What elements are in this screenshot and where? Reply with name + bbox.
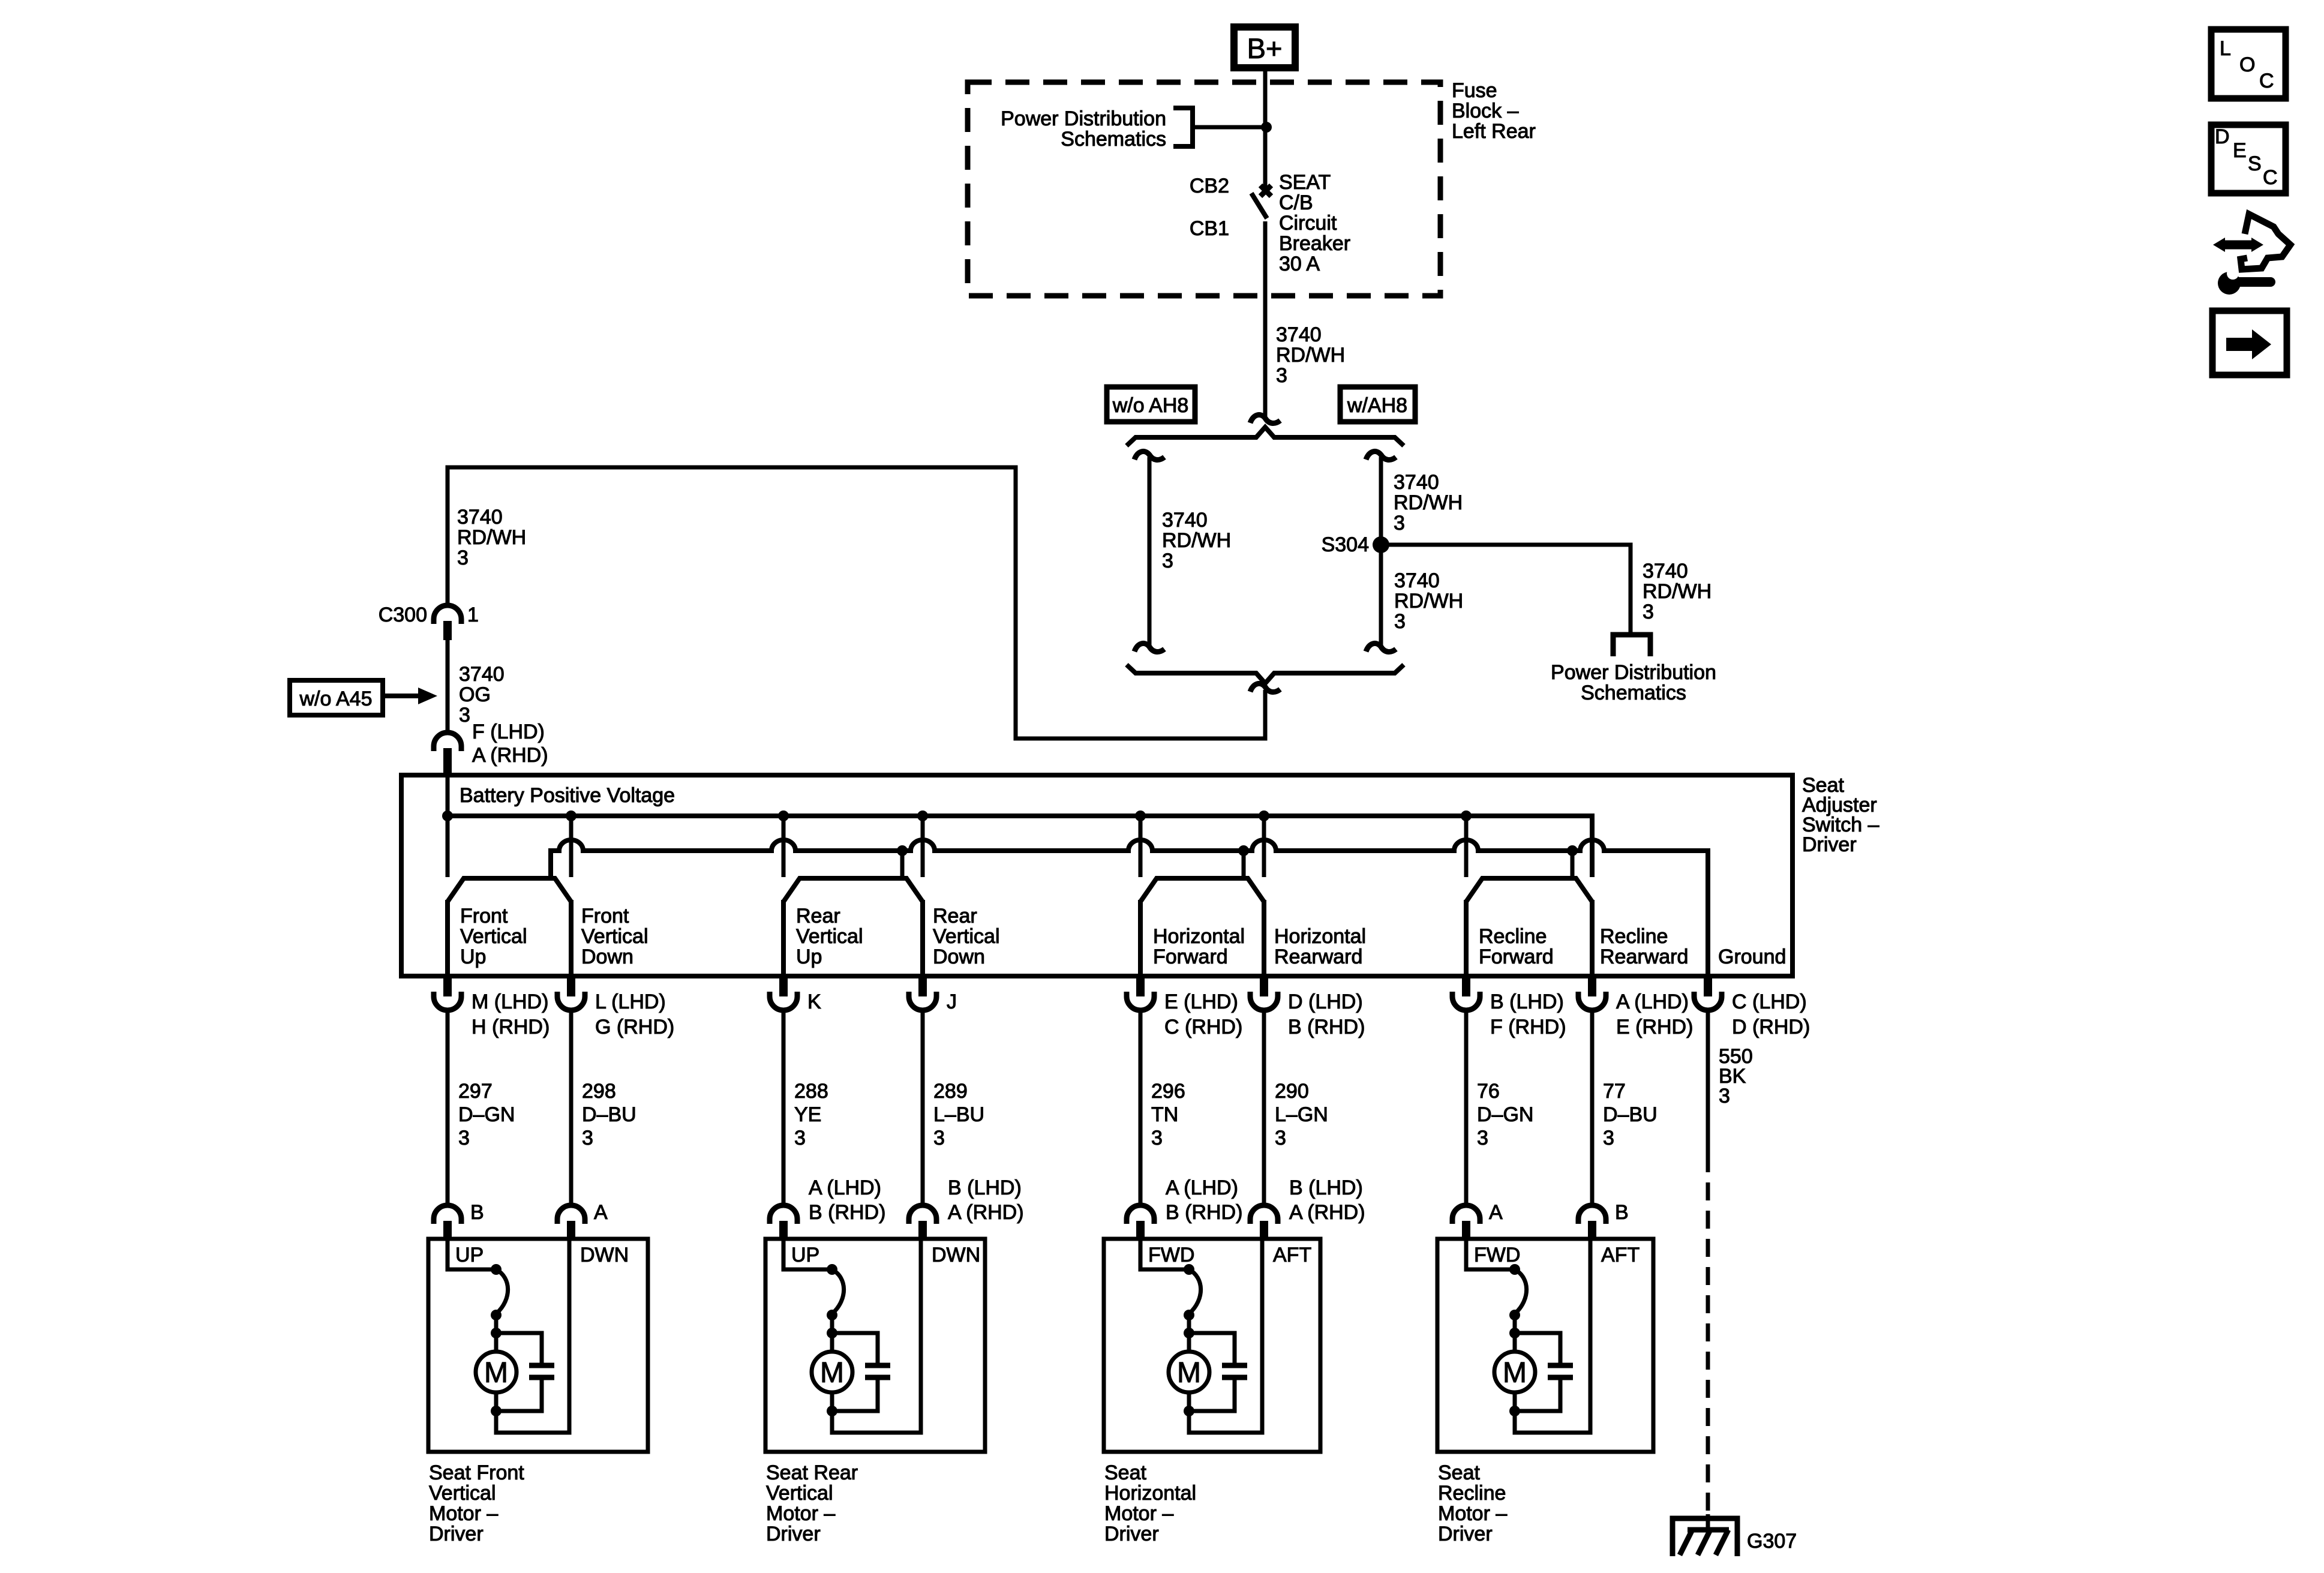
svg-text:3740: 3740 bbox=[1276, 323, 1322, 346]
svg-text:AFT: AFT bbox=[1273, 1244, 1311, 1266]
wire B+ rail drop to Horizontal Rearward contact bbox=[1262, 816, 1266, 877]
off-page connector to power distribution schematics bbox=[1613, 635, 1650, 656]
connector C300 pin 1 bbox=[434, 605, 461, 640]
svg-text:A (RHD): A (RHD) bbox=[472, 744, 548, 767]
connector pin D (switch side) at x=2107 bbox=[1250, 976, 1278, 1010]
connector pin A (switch side) at x=2654 bbox=[1578, 976, 1606, 1010]
svg-text:DWN: DWN bbox=[932, 1244, 980, 1266]
svg-text:Motor –: Motor – bbox=[1104, 1502, 1173, 1525]
connector pin B (motor side) at x=746 bbox=[434, 1205, 461, 1240]
motor internal switch contact (curved) bbox=[1189, 1269, 1201, 1313]
wire motor to bottom junction bbox=[1187, 1392, 1191, 1413]
svg-text:77: 77 bbox=[1603, 1080, 1626, 1103]
wire splice to breaker contact bbox=[1263, 127, 1268, 188]
svg-text:w/o AH8: w/o AH8 bbox=[1112, 394, 1189, 417]
motor internal switch contact (curved) bbox=[496, 1269, 508, 1313]
junction dot (contact bottom) bbox=[1509, 1310, 1520, 1320]
wire circuit 296 TN 3 bbox=[1139, 1010, 1143, 1205]
svg-text:30 A: 30 A bbox=[1279, 253, 1320, 275]
svg-text:RD/WH: RD/WH bbox=[1394, 491, 1463, 514]
svg-text:G (RHD): G (RHD) bbox=[595, 1016, 674, 1038]
label circuit 3740 RD/WH 3 (left run) bbox=[457, 506, 526, 569]
label Front Vertical Down bbox=[581, 905, 648, 968]
svg-text:TN: TN bbox=[1151, 1103, 1178, 1126]
svg-text:3: 3 bbox=[1643, 601, 1654, 623]
svg-text:Front: Front bbox=[581, 905, 629, 927]
capacitor (motor suppression) bbox=[832, 1333, 890, 1411]
svg-text:Seat Front: Seat Front bbox=[429, 1461, 524, 1484]
svg-text:w/o A45: w/o A45 bbox=[299, 688, 373, 710]
connector pin J (switch side) at x=1538 bbox=[909, 976, 936, 1010]
motor M (Seat Front Vertical Motor - Driver) bbox=[476, 1352, 517, 1392]
svg-text:Fuse: Fuse bbox=[1452, 79, 1497, 102]
svg-text:AFT: AFT bbox=[1601, 1244, 1640, 1266]
svg-text:RD/WH: RD/WH bbox=[457, 526, 526, 549]
junction dot (capacitor tap top) bbox=[827, 1328, 837, 1338]
wire FWD feed into switch contact bbox=[1140, 1239, 1189, 1269]
svg-text:L–GN: L–GN bbox=[1275, 1103, 1328, 1126]
label pin F (LHD) bbox=[472, 721, 545, 743]
connector pin A (motor side) at x=2444 bbox=[1452, 1205, 1480, 1240]
label SEAT C/B Circuit Breaker 30 A bbox=[1279, 171, 1350, 275]
svg-text:3: 3 bbox=[1719, 1085, 1730, 1107]
svg-text:L (LHD): L (LHD) bbox=[595, 990, 666, 1013]
svg-text:D (RHD): D (RHD) bbox=[1732, 1016, 1810, 1038]
svg-text:A: A bbox=[594, 1201, 608, 1224]
icon adjust/repair (arrow, panel, wrench) bbox=[2213, 214, 2290, 295]
wire circuit 289 L–BU 3 bbox=[921, 1010, 925, 1205]
w/o AH8 branch wire 3740 RD/WH bbox=[1134, 451, 1164, 652]
wire B+ rail drop to Rear Vertical Down contact bbox=[921, 816, 925, 877]
label Seat Front Vertical Motor - Driver bbox=[429, 1461, 524, 1545]
svg-text:Driver: Driver bbox=[1802, 833, 1857, 856]
svg-text:C: C bbox=[2259, 70, 2274, 92]
connector pin B (motor side) at x=2654 bbox=[1578, 1205, 1606, 1240]
label pin 1 bbox=[467, 604, 479, 626]
svg-text:290: 290 bbox=[1275, 1080, 1309, 1103]
label DWN bbox=[932, 1244, 980, 1266]
wire motor to bottom junction bbox=[494, 1392, 499, 1413]
capacitor (motor suppression) bbox=[1515, 1333, 1573, 1411]
wire return to DWN terminal bbox=[832, 1239, 921, 1433]
svg-text:A (LHD): A (LHD) bbox=[1616, 990, 1689, 1013]
svg-text:Driver: Driver bbox=[1438, 1523, 1493, 1545]
icon forward arrow page tab bbox=[2212, 311, 2287, 375]
connector pin K (switch side) at x=1306 bbox=[770, 976, 797, 1010]
wire circuit 298 D–BU 3 bbox=[569, 1010, 574, 1205]
svg-text:B (LHD): B (LHD) bbox=[1490, 990, 1564, 1013]
wire motor to bottom junction bbox=[1513, 1392, 1517, 1413]
motor M (Seat Rear Vertical Motor - Driver) bbox=[812, 1352, 852, 1392]
connector pin A (motor side) at x=952 bbox=[557, 1205, 585, 1240]
svg-text:FWD: FWD bbox=[1148, 1244, 1194, 1266]
svg-text:3740: 3740 bbox=[459, 663, 505, 686]
svg-text:1: 1 bbox=[467, 604, 479, 626]
svg-text:B (RHD): B (RHD) bbox=[1288, 1016, 1365, 1038]
svg-text:A (RHD): A (RHD) bbox=[1289, 1201, 1365, 1224]
switch contact Front Vertical bbox=[448, 878, 571, 976]
svg-text:Seat: Seat bbox=[1104, 1461, 1146, 1484]
svg-text:Recline: Recline bbox=[1438, 1482, 1506, 1505]
svg-text:O: O bbox=[2239, 53, 2255, 76]
svg-text:M: M bbox=[484, 1357, 508, 1389]
svg-text:Rearward: Rearward bbox=[1274, 945, 1362, 968]
w/AH8 branch wire 3740 RD/WH bbox=[1366, 451, 1396, 652]
svg-text:C/B: C/B bbox=[1279, 191, 1313, 214]
capacitor (motor suppression) bbox=[496, 1333, 554, 1411]
svg-text:M: M bbox=[1503, 1357, 1527, 1389]
svg-text:D–GN: D–GN bbox=[458, 1103, 515, 1126]
motor assembly Seat Rear Vertical Motor - Driver (box) bbox=[765, 1239, 985, 1452]
svg-text:F (LHD): F (LHD) bbox=[472, 721, 545, 743]
label circuit 3740 OG 3 bbox=[459, 663, 505, 727]
label Seat Horizontal Motor - Driver bbox=[1104, 1461, 1196, 1545]
wire bracket to splice bbox=[1193, 125, 1265, 130]
svg-text:FWD: FWD bbox=[1474, 1244, 1520, 1266]
connector pin A (motor side) at x=1306 bbox=[770, 1205, 797, 1240]
svg-text:CB1: CB1 bbox=[1190, 217, 1229, 240]
svg-text:DWN: DWN bbox=[580, 1244, 629, 1266]
junction dot (capacitor tap top) bbox=[1184, 1328, 1194, 1338]
svg-text:288: 288 bbox=[794, 1080, 828, 1103]
junction dots on common rail bbox=[897, 845, 1578, 856]
svg-text:Battery Positive Voltage: Battery Positive Voltage bbox=[460, 784, 675, 807]
label circuit 3740 RD/WH 3 (above S304) bbox=[1394, 471, 1463, 535]
wire return to AFT terminal bbox=[1515, 1239, 1590, 1433]
connector seat adjuster switch feed pin bbox=[434, 733, 461, 775]
svg-text:C (LHD): C (LHD) bbox=[1732, 990, 1807, 1013]
svg-text:Driver: Driver bbox=[429, 1523, 484, 1545]
wire circuit 288 YE 3 bbox=[782, 1010, 786, 1205]
motor internal switch contact (curved) bbox=[832, 1269, 844, 1313]
svg-text:D–BU: D–BU bbox=[582, 1103, 636, 1126]
label Power Distribution Schematics (bottom) bbox=[1551, 661, 1716, 704]
svg-text:Motor –: Motor – bbox=[766, 1502, 835, 1525]
label pin C (LHD) bbox=[1732, 990, 1810, 1038]
label Rear Vertical Down bbox=[933, 905, 1000, 968]
label motor pin A bbox=[594, 1201, 608, 1224]
svg-text:E (LHD): E (LHD) bbox=[1164, 990, 1238, 1013]
svg-text:A (LHD): A (LHD) bbox=[1166, 1176, 1238, 1199]
label circuit 296 TN 3 bbox=[1151, 1080, 1185, 1149]
wire return to AFT terminal bbox=[1189, 1239, 1262, 1433]
svg-text:Rearward: Rearward bbox=[1600, 945, 1688, 968]
wire circuit 550 BK 3 (ground, dashed run) bbox=[1706, 1154, 1710, 1514]
svg-text:Seat Rear: Seat Rear bbox=[766, 1461, 858, 1484]
connector pin E (switch side) at x=1901 bbox=[1127, 976, 1154, 1010]
wire UP feed into switch contact bbox=[448, 1239, 496, 1269]
wire UP feed into switch contact bbox=[783, 1239, 832, 1269]
svg-text:Vertical: Vertical bbox=[581, 925, 648, 948]
option tag w/o AH8 bbox=[1107, 387, 1195, 422]
svg-text:G307: G307 bbox=[1747, 1530, 1797, 1553]
label AFT bbox=[1273, 1244, 1311, 1266]
svg-text:Rear: Rear bbox=[796, 905, 840, 927]
svg-text:Motor –: Motor – bbox=[1438, 1502, 1507, 1525]
svg-text:RD/WH: RD/WH bbox=[1162, 529, 1231, 552]
wire circuit 290 L–GN 3 bbox=[1262, 1010, 1266, 1205]
label Horizontal Forward bbox=[1153, 925, 1245, 968]
label circuit 290 L–GN 3 bbox=[1275, 1080, 1328, 1149]
svg-text:RD/WH: RD/WH bbox=[1394, 590, 1463, 613]
svg-text:3: 3 bbox=[1162, 550, 1173, 572]
label Recline Forward bbox=[1479, 925, 1554, 968]
svg-text:Circuit: Circuit bbox=[1279, 212, 1337, 235]
svg-text:3740: 3740 bbox=[1162, 509, 1208, 532]
svg-text:Ground: Ground bbox=[1718, 945, 1786, 968]
label UP bbox=[791, 1244, 819, 1266]
svg-text:298: 298 bbox=[582, 1080, 616, 1103]
label Recline Rearward bbox=[1600, 925, 1688, 968]
junction splice dot bbox=[1261, 122, 1272, 133]
junction dot (contact bottom) bbox=[491, 1310, 502, 1320]
svg-text:CB2: CB2 bbox=[1190, 175, 1229, 197]
connector pin B (motor side) at x=1538 bbox=[909, 1205, 936, 1240]
label pin A (LHD) bbox=[1616, 990, 1693, 1038]
svg-text:Down: Down bbox=[581, 945, 633, 968]
svg-text:3: 3 bbox=[459, 704, 470, 727]
switch contact Horizontal bbox=[1140, 878, 1264, 976]
label circuit 298 D–BU 3 bbox=[582, 1080, 636, 1149]
svg-text:Down: Down bbox=[933, 945, 985, 968]
svg-text:B (LHD): B (LHD) bbox=[1289, 1176, 1363, 1199]
label pin J bbox=[947, 990, 957, 1013]
wire B+ rail drop to Front Vertical Up contact bbox=[446, 816, 450, 877]
wire B+ rail drop to Horizontal Forward contact bbox=[1139, 816, 1143, 877]
svg-text:L–BU: L–BU bbox=[933, 1103, 984, 1126]
svg-text:Block –: Block – bbox=[1452, 100, 1519, 122]
connector pin M (switch side) at x=746 bbox=[434, 976, 461, 1010]
svg-text:A: A bbox=[1489, 1201, 1503, 1224]
junction dot (capacitor tap bottom) bbox=[827, 1406, 837, 1416]
svg-text:3: 3 bbox=[582, 1127, 593, 1149]
label circuit 3740 RD/WH 3 (w/o AH8 branch) bbox=[1162, 509, 1231, 572]
svg-text:Recline: Recline bbox=[1600, 925, 1668, 948]
label Fuse Block - Left Rear bbox=[1452, 79, 1536, 143]
junction dot (capacitor tap bottom) bbox=[491, 1406, 502, 1416]
junction dot (contact bottom) bbox=[827, 1310, 837, 1320]
power node B+ bbox=[1234, 27, 1295, 68]
switch contact Recline bbox=[1466, 878, 1592, 976]
svg-text:3740: 3740 bbox=[1394, 569, 1440, 592]
svg-text:Seat: Seat bbox=[1438, 1461, 1480, 1484]
svg-text:Driver: Driver bbox=[766, 1523, 821, 1545]
svg-text:w/AH8: w/AH8 bbox=[1347, 394, 1407, 417]
svg-text:3: 3 bbox=[1394, 610, 1406, 633]
motor M (Seat Recline Motor - Driver) bbox=[1494, 1352, 1535, 1392]
motor assembly Seat Horizontal Motor - Driver (box) bbox=[1104, 1239, 1320, 1452]
label Rear Vertical Up bbox=[796, 905, 863, 968]
svg-text:K: K bbox=[807, 990, 821, 1013]
switch contact Rear Vertical bbox=[783, 878, 923, 976]
svg-text:3: 3 bbox=[1477, 1127, 1488, 1149]
junction dot (contact top) bbox=[1509, 1264, 1520, 1275]
svg-text:M (LHD): M (LHD) bbox=[472, 990, 548, 1013]
svg-text:289: 289 bbox=[933, 1080, 968, 1103]
junction dot (capacitor tap top) bbox=[1509, 1328, 1520, 1338]
svg-text:UP: UP bbox=[791, 1244, 819, 1266]
svg-text:M: M bbox=[820, 1357, 844, 1389]
connector pin L (switch side) at x=952 bbox=[557, 976, 585, 1010]
wire B+ rail drop to Rear Vertical Up contact bbox=[782, 816, 786, 877]
junction dots on B+ rail bbox=[442, 810, 1472, 821]
label circuit 297 D–GN 3 bbox=[458, 1080, 515, 1149]
svg-text:Vertical: Vertical bbox=[766, 1482, 833, 1505]
svg-text:D–BU: D–BU bbox=[1603, 1103, 1658, 1126]
svg-text:Vertical: Vertical bbox=[460, 925, 527, 948]
wire FWD feed into switch contact bbox=[1466, 1239, 1515, 1269]
wire break squiggle (below brace) bbox=[1250, 683, 1280, 692]
option tag w/AH8 bbox=[1340, 387, 1415, 422]
svg-text:B: B bbox=[1615, 1201, 1629, 1224]
svg-text:J: J bbox=[947, 990, 957, 1013]
bus switch common (ground rail) with hops bbox=[551, 840, 1708, 976]
junction dot (capacitor tap bottom) bbox=[1184, 1406, 1194, 1416]
svg-text:3740: 3740 bbox=[1643, 560, 1688, 583]
icon DESC page tab bbox=[2211, 125, 2286, 193]
svg-text:D: D bbox=[2215, 125, 2230, 148]
junction dot (contact top) bbox=[827, 1264, 837, 1275]
svg-text:Horizontal: Horizontal bbox=[1104, 1482, 1196, 1505]
svg-text:Breaker: Breaker bbox=[1279, 232, 1350, 255]
connector pin C (switch side) at x=2847 bbox=[1694, 976, 1722, 1010]
svg-text:B+: B+ bbox=[1247, 32, 1283, 64]
label pin M (LHD) bbox=[472, 990, 550, 1038]
label circuit 550 BK 3 bbox=[1719, 1045, 1753, 1107]
svg-text:Motor –: Motor – bbox=[429, 1502, 498, 1525]
label CB1 bbox=[1190, 217, 1229, 240]
svg-text:76: 76 bbox=[1477, 1080, 1500, 1103]
svg-text:Driver: Driver bbox=[1104, 1523, 1159, 1545]
label motor pin B (LHD) bbox=[1289, 1176, 1365, 1224]
label Power Distribution Schematics (fuse block feed) bbox=[1001, 107, 1166, 151]
svg-text:3: 3 bbox=[933, 1127, 945, 1149]
capacitor (motor suppression) bbox=[1189, 1333, 1247, 1411]
split brace (top) bbox=[1127, 427, 1404, 446]
svg-text:297: 297 bbox=[458, 1080, 493, 1103]
svg-text:Vertical: Vertical bbox=[796, 925, 863, 948]
svg-text:3: 3 bbox=[1276, 364, 1287, 387]
svg-text:B: B bbox=[470, 1201, 484, 1224]
svg-text:Schematics: Schematics bbox=[1581, 682, 1686, 704]
svg-text:D–GN: D–GN bbox=[1477, 1103, 1533, 1126]
seat adjuster switch - driver (box) bbox=[401, 775, 1792, 976]
wire B+ rail drop to Recline Forward contact bbox=[1464, 816, 1469, 877]
label splice S304 bbox=[1322, 533, 1369, 556]
splice S304 bbox=[1373, 536, 1389, 553]
label circuit 3740 RD/WH 3 (power distribution leg) bbox=[1643, 560, 1712, 623]
label pin D (LHD) bbox=[1288, 990, 1365, 1038]
label motor pin A (LHD) bbox=[809, 1176, 885, 1224]
junction dot (capacitor tap top) bbox=[491, 1328, 502, 1338]
svg-text:B (LHD): B (LHD) bbox=[948, 1176, 1022, 1199]
label G307 bbox=[1747, 1530, 1797, 1553]
svg-text:3: 3 bbox=[1603, 1127, 1614, 1149]
svg-text:Forward: Forward bbox=[1153, 945, 1228, 968]
label Front Vertical Up bbox=[460, 905, 527, 968]
connector pin A (motor side) at x=1901 bbox=[1127, 1205, 1154, 1240]
bus battery positive voltage (B+ rail) bbox=[448, 775, 1592, 877]
svg-text:S: S bbox=[2248, 152, 2262, 175]
svg-text:A (LHD): A (LHD) bbox=[809, 1176, 881, 1199]
wire B+ rail drop to Front Vertical Down contact bbox=[569, 816, 574, 877]
motor M (Seat Horizontal Motor - Driver) bbox=[1169, 1352, 1209, 1392]
wire circuit 550 BK 3 (ground, solid) bbox=[1706, 1010, 1710, 1154]
svg-text:296: 296 bbox=[1151, 1080, 1185, 1103]
svg-text:3: 3 bbox=[1275, 1127, 1286, 1149]
label pin B (LHD) bbox=[1490, 990, 1566, 1038]
wire contact to motor bbox=[494, 1315, 499, 1352]
svg-text:Up: Up bbox=[460, 945, 486, 968]
wire S304 to power distribution bbox=[1381, 545, 1631, 635]
svg-text:Rear: Rear bbox=[933, 905, 977, 927]
option tag w/o A45 bbox=[290, 680, 383, 715]
svg-text:S304: S304 bbox=[1322, 533, 1369, 556]
label motor pin A (LHD) bbox=[1166, 1176, 1242, 1224]
connector pin B (switch side) at x=2444 bbox=[1452, 976, 1480, 1010]
svg-text:C300: C300 bbox=[379, 604, 427, 626]
wire contact to motor bbox=[1187, 1315, 1191, 1352]
wire contact to motor bbox=[1513, 1315, 1517, 1352]
svg-text:C (RHD): C (RHD) bbox=[1164, 1016, 1242, 1038]
wire return to DWN terminal bbox=[496, 1239, 569, 1433]
svg-text:E (RHD): E (RHD) bbox=[1616, 1016, 1693, 1038]
label circuit 76 D–GN 3 bbox=[1477, 1080, 1533, 1149]
wire motor to bottom junction bbox=[830, 1392, 834, 1413]
label Battery Positive Voltage bbox=[460, 784, 675, 807]
svg-text:RD/WH: RD/WH bbox=[1276, 344, 1345, 367]
arrow w/o A45 pointer bbox=[383, 688, 437, 704]
circuit breaker CB SEAT 30A contact bbox=[1251, 185, 1271, 218]
svg-text:YE: YE bbox=[794, 1103, 821, 1126]
label Seat Rear Vertical Motor - Driver bbox=[766, 1461, 858, 1545]
svg-text:Schematics: Schematics bbox=[1061, 128, 1166, 151]
junction dot (contact top) bbox=[491, 1264, 502, 1275]
wire 3740 to C300 (routing) bbox=[448, 467, 1265, 739]
svg-text:Vertical: Vertical bbox=[933, 925, 1000, 948]
label pin L (LHD) bbox=[595, 990, 674, 1038]
svg-text:L: L bbox=[2220, 37, 2231, 60]
split brace (bottom) bbox=[1127, 665, 1404, 683]
label pin E (LHD) bbox=[1164, 990, 1242, 1038]
junction dot (contact top) bbox=[1184, 1264, 1194, 1275]
wire circuit 3740 OG 3 bbox=[446, 640, 450, 733]
label C300 bbox=[379, 604, 427, 626]
svg-text:B (RHD): B (RHD) bbox=[809, 1201, 885, 1224]
wire B+ to fuse block splice bbox=[1263, 71, 1268, 127]
label Horizontal Rearward bbox=[1274, 925, 1366, 968]
svg-text:3: 3 bbox=[457, 547, 469, 569]
wire circuit 297 D–GN 3 bbox=[446, 1010, 450, 1205]
svg-text:M: M bbox=[1177, 1357, 1201, 1389]
svg-text:Power Distribution: Power Distribution bbox=[1551, 661, 1716, 684]
svg-text:Power Distribution: Power Distribution bbox=[1001, 107, 1166, 130]
svg-text:3: 3 bbox=[794, 1127, 806, 1149]
svg-text:SEAT: SEAT bbox=[1279, 171, 1331, 194]
junction dot (contact bottom) bbox=[1184, 1310, 1194, 1320]
label Ground bbox=[1718, 945, 1786, 968]
svg-text:B (RHD): B (RHD) bbox=[1166, 1201, 1242, 1224]
wire break squiggle bbox=[1250, 415, 1280, 423]
label circuit 3740 RD/WH 3 (below S304) bbox=[1394, 569, 1463, 633]
wire contact to motor bbox=[830, 1315, 834, 1352]
ground G307 (case bracket) bbox=[1673, 1518, 1737, 1556]
label circuit 3740 RD/WH 3 (upper) bbox=[1276, 323, 1345, 387]
fuse block - left rear (dashed outline) bbox=[968, 82, 1440, 296]
label AFT bbox=[1601, 1244, 1640, 1266]
svg-text:3: 3 bbox=[1394, 512, 1405, 535]
svg-text:RD/WH: RD/WH bbox=[1643, 580, 1712, 603]
